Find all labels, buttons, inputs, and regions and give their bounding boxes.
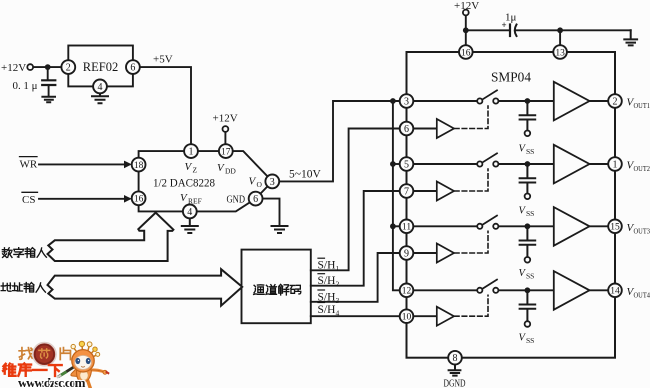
- svg-text:+5V: +5V: [153, 54, 173, 66]
- pin SMP-14: [608, 284, 622, 298]
- svg-text:3: 3: [270, 177, 275, 188]
- svg-text:REF02: REF02: [83, 60, 118, 74]
- node top rail pin13: [557, 27, 563, 33]
- wire +12V top rail: [465, 15, 467, 45]
- svg-text:4: 4: [187, 207, 192, 218]
- terminal Vss ch1: [525, 131, 531, 137]
- REF02 box U1: [68, 46, 133, 87]
- node hold cap ch4: [525, 287, 531, 293]
- pin SMP-3: [400, 94, 414, 108]
- wire WR arrow line: [39, 163, 126, 165]
- ground under DAC pin 6: [272, 226, 288, 233]
- dashed control line B1 to S1: [455, 106, 489, 129]
- hold capacitor C3: [520, 101, 536, 130]
- svg-text:V: V: [249, 175, 257, 187]
- terminal +12V left: [27, 64, 33, 70]
- svg-text:S/H: S/H: [318, 260, 336, 272]
- watermark group: [3, 341, 108, 388]
- svg-text:S/H: S/H: [318, 304, 336, 316]
- svg-text:3: 3: [336, 296, 340, 305]
- pin DAC-6: [249, 192, 263, 206]
- svg-text:+12V: +12V: [454, 0, 479, 12]
- svg-text:7: 7: [404, 187, 409, 198]
- svg-text:CS: CS: [22, 194, 35, 206]
- pin SMP-5: [400, 157, 414, 171]
- switch S1 arm: [482, 90, 497, 99]
- buffer B2 input wire: [413, 190, 437, 192]
- wire switch S1 to amp A1: [498, 100, 553, 102]
- node bus tap pin5: [390, 161, 396, 167]
- terminal +12V SMP04: [463, 10, 469, 16]
- svg-text:www.dzsc.com: www.dzsc.com: [18, 375, 86, 388]
- capacitor C1 plates: [42, 80, 55, 85]
- svg-text:1: 1: [189, 147, 194, 158]
- svg-text:SMP04: SMP04: [491, 71, 531, 86]
- wire S/H1 decoder to SMP04 pin 6: [311, 129, 400, 271]
- pin SMP-12: [400, 284, 414, 298]
- svg-text:1: 1: [613, 160, 618, 171]
- wire S/H3 decoder to SMP04 pin 9: [311, 253, 400, 302]
- svg-text:V: V: [180, 192, 188, 204]
- svg-text:5: 5: [404, 160, 409, 171]
- svg-text:8: 8: [453, 353, 458, 364]
- DAC8228 outline U2: [139, 151, 273, 211]
- watermark xin glyph: [39, 349, 50, 358]
- svg-text:6: 6: [253, 194, 258, 205]
- buffer B2: [437, 182, 454, 201]
- wire pin12 to switch S4: [413, 289, 477, 291]
- wire CS arrow line: [39, 198, 126, 200]
- hold capacitor C6: [520, 290, 536, 321]
- wire cap to ground rail: [516, 29, 631, 31]
- svg-text:SS: SS: [526, 272, 534, 281]
- wire bus branch to pin 5: [393, 163, 400, 165]
- wire analog input bus: [393, 101, 400, 290]
- pin DAC-3: [265, 175, 279, 189]
- svg-text:OUT4: OUT4: [634, 290, 650, 299]
- svg-text:SS: SS: [526, 336, 534, 345]
- switch S4 contacts: [477, 288, 482, 293]
- arrowhead WR: [124, 161, 132, 169]
- op-amp A4: [554, 271, 590, 310]
- open terminals: [27, 10, 530, 327]
- svg-text:1: 1: [336, 264, 340, 273]
- arrowhead CS: [124, 195, 132, 203]
- pin REF02-4: [93, 80, 107, 94]
- wire pin3 to switch S1: [413, 100, 477, 102]
- node hold cap ch3: [525, 223, 531, 229]
- terminal Vss ch2: [525, 194, 531, 200]
- terminal Vss ch3: [525, 257, 531, 263]
- wire switch S3 to amp A3: [498, 225, 553, 227]
- svg-text:9: 9: [404, 249, 409, 260]
- wire +12V left rail to REF02 pin 2: [33, 66, 61, 68]
- svg-text:SS: SS: [526, 209, 534, 218]
- svg-text:0. 1 μ: 0. 1 μ: [13, 80, 38, 92]
- pin SMP-1: [608, 157, 622, 171]
- svg-text:6: 6: [404, 124, 409, 135]
- svg-text:WR: WR: [20, 158, 38, 170]
- pin DAC-18: [132, 158, 146, 172]
- label shuzi shuru (digital input): [2, 248, 46, 258]
- buffer B3 input wire: [413, 252, 437, 254]
- watermark weiku yixia red text: [3, 363, 62, 375]
- svg-text:GND: GND: [227, 194, 246, 205]
- svg-text:OUT3: OUT3: [634, 226, 650, 235]
- wire pin 13 stub: [559, 30, 561, 45]
- svg-text:V: V: [217, 162, 225, 174]
- svg-text:11: 11: [402, 223, 411, 233]
- capacitor C1 0.1u lead: [47, 67, 49, 80]
- switch S4 arm: [482, 280, 497, 289]
- capacitor C1 lower lead: [48, 85, 50, 96]
- pin SMP-6: [400, 122, 414, 136]
- op-amp A1: [554, 82, 590, 121]
- svg-text:16: 16: [461, 48, 471, 58]
- watermark zhao glyph: [19, 348, 32, 360]
- wire amp A1 to pin 2: [590, 100, 609, 102]
- svg-text:V: V: [185, 161, 193, 173]
- svg-text:3: 3: [404, 97, 409, 108]
- wire pin11 to switch S3: [413, 225, 477, 227]
- svg-text:5~10V: 5~10V: [289, 169, 321, 181]
- ground under REF02 pin 4: [92, 93, 108, 103]
- buffer B4 input wire: [413, 315, 437, 317]
- svg-text:O: O: [257, 180, 263, 189]
- node top rail pin16: [463, 27, 469, 33]
- wire S/H4 decoder to SMP04 pin 10: [311, 315, 400, 317]
- wire switch S4 to amp A4: [498, 289, 553, 291]
- svg-text:12: 12: [402, 287, 412, 297]
- op-amp A2: [554, 145, 590, 184]
- svg-text:14: 14: [610, 287, 620, 297]
- svg-text:4: 4: [336, 308, 340, 317]
- op-amp A3: [554, 207, 590, 246]
- svg-text:S/H: S/H: [318, 275, 336, 287]
- wire REF02 pin6 to +5V rail down to DAC pin 1: [140, 67, 191, 144]
- svg-text:DD: DD: [225, 166, 236, 175]
- svg-text:16: 16: [134, 195, 144, 205]
- CJK labels drawn as strokes: [1, 248, 301, 295]
- pin SMP-11: [400, 220, 414, 234]
- wire S/H2 decoder to SMP04 pin 7: [311, 191, 400, 286]
- decoder box U3: [242, 250, 311, 324]
- pin circles: [61, 45, 621, 364]
- ground under C1: [42, 97, 55, 103]
- svg-text:1/2 DAC8228: 1/2 DAC8228: [153, 176, 215, 190]
- digital input hollow bus arrow: [48, 213, 174, 261]
- watermark pian glyph: [60, 348, 70, 360]
- dashed control line B4 to S4: [455, 295, 489, 316]
- switch S2 contacts: [477, 161, 482, 166]
- svg-text:4: 4: [98, 82, 103, 93]
- svg-text:S/H: S/H: [318, 291, 336, 303]
- hold capacitor C5: [520, 226, 536, 257]
- svg-text:SS: SS: [526, 147, 534, 156]
- ground DGND under pin 8: [449, 365, 461, 376]
- pin SMP-16: [459, 45, 473, 59]
- node hold cap ch1: [525, 98, 531, 104]
- svg-text:REF: REF: [188, 196, 202, 205]
- wire amp A3 to pin 15: [590, 225, 609, 227]
- buffer B3: [437, 244, 454, 263]
- wire switch S2 to amp A2: [498, 163, 553, 165]
- svg-text:13: 13: [555, 48, 565, 58]
- capacitor C2 1u plates: [509, 25, 511, 37]
- dashed control line B3 to S3: [455, 231, 489, 253]
- svg-text:17: 17: [221, 147, 231, 157]
- node hold cap ch2: [525, 161, 531, 167]
- wire amp A4 to pin 14: [590, 289, 609, 291]
- wire top rail to cap: [466, 29, 509, 31]
- watermark mascot: [71, 341, 108, 388]
- pin SMP-2: [608, 94, 622, 108]
- ground top right: [624, 30, 637, 45]
- svg-text:OUT1: OUT1: [634, 101, 650, 110]
- node +12V/C1 junction: [45, 64, 51, 70]
- svg-text:6: 6: [130, 63, 135, 74]
- svg-text:2: 2: [613, 97, 618, 108]
- buffer B4: [437, 307, 454, 326]
- wire DAC pin6 GND to ground: [263, 199, 280, 226]
- svg-text:15: 15: [610, 223, 620, 233]
- svg-text:Z: Z: [193, 166, 198, 175]
- buffer B1 input wire: [413, 128, 437, 130]
- svg-text:10: 10: [402, 313, 412, 323]
- switch S3 arm: [482, 216, 497, 225]
- buffer B1: [437, 119, 454, 138]
- SMP04 box U4: [407, 52, 616, 358]
- wire bus branch to pin 11: [393, 225, 400, 227]
- pin REF02-2: [61, 60, 75, 74]
- svg-text:+: +: [502, 20, 507, 30]
- address input hollow bus arrow: [48, 269, 243, 306]
- pin SMP-10: [400, 309, 414, 323]
- wire +12V terminal to DAC pin 17: [224, 132, 226, 145]
- switch S2 arm: [482, 153, 497, 162]
- svg-text:OUT2: OUT2: [634, 164, 650, 173]
- switch S1 contacts: [477, 98, 482, 103]
- ground under DAC pin 4: [182, 218, 198, 233]
- pin SMP-7: [400, 184, 414, 198]
- wire amp A2 to pin 1: [590, 163, 609, 165]
- dashed control line B2 to S2: [455, 169, 489, 191]
- pin SMP-13: [553, 45, 567, 59]
- watermark red circle: [33, 343, 56, 366]
- svg-text:2: 2: [336, 280, 340, 289]
- node bus tap pin11: [390, 223, 396, 229]
- pin DAC-4: [183, 205, 197, 219]
- pin SMP-9: [400, 246, 414, 260]
- svg-text:2: 2: [66, 63, 71, 74]
- watermark pen: [59, 363, 80, 376]
- switch S3 contacts: [477, 224, 482, 229]
- label tongdao jiema (channel decoder): [254, 284, 301, 295]
- svg-text:+12V: +12V: [213, 113, 238, 125]
- svg-text:DGND: DGND: [444, 379, 466, 388]
- pin DAC-16: [132, 191, 146, 205]
- wire pin5 to switch S2: [413, 163, 477, 165]
- label dizhi shuru (address input): [1, 283, 45, 293]
- pin REF02-6: [126, 60, 140, 74]
- hold capacitor C4: [520, 164, 536, 193]
- svg-text:1μ: 1μ: [505, 12, 517, 24]
- node bus tap pin3: [390, 98, 396, 104]
- pin SMP-8: [448, 351, 462, 365]
- terminal Vss ch4: [525, 321, 531, 327]
- wire Vo output 5~10V to SMP04 pin 3: [279, 101, 400, 181]
- pin SMP-15: [608, 220, 622, 234]
- pin DAC-17: [219, 144, 233, 158]
- svg-text:18: 18: [134, 161, 144, 171]
- terminal +12V DAC: [223, 126, 229, 132]
- svg-text:+12V: +12V: [1, 62, 26, 74]
- pin DAC-1: [184, 144, 198, 158]
